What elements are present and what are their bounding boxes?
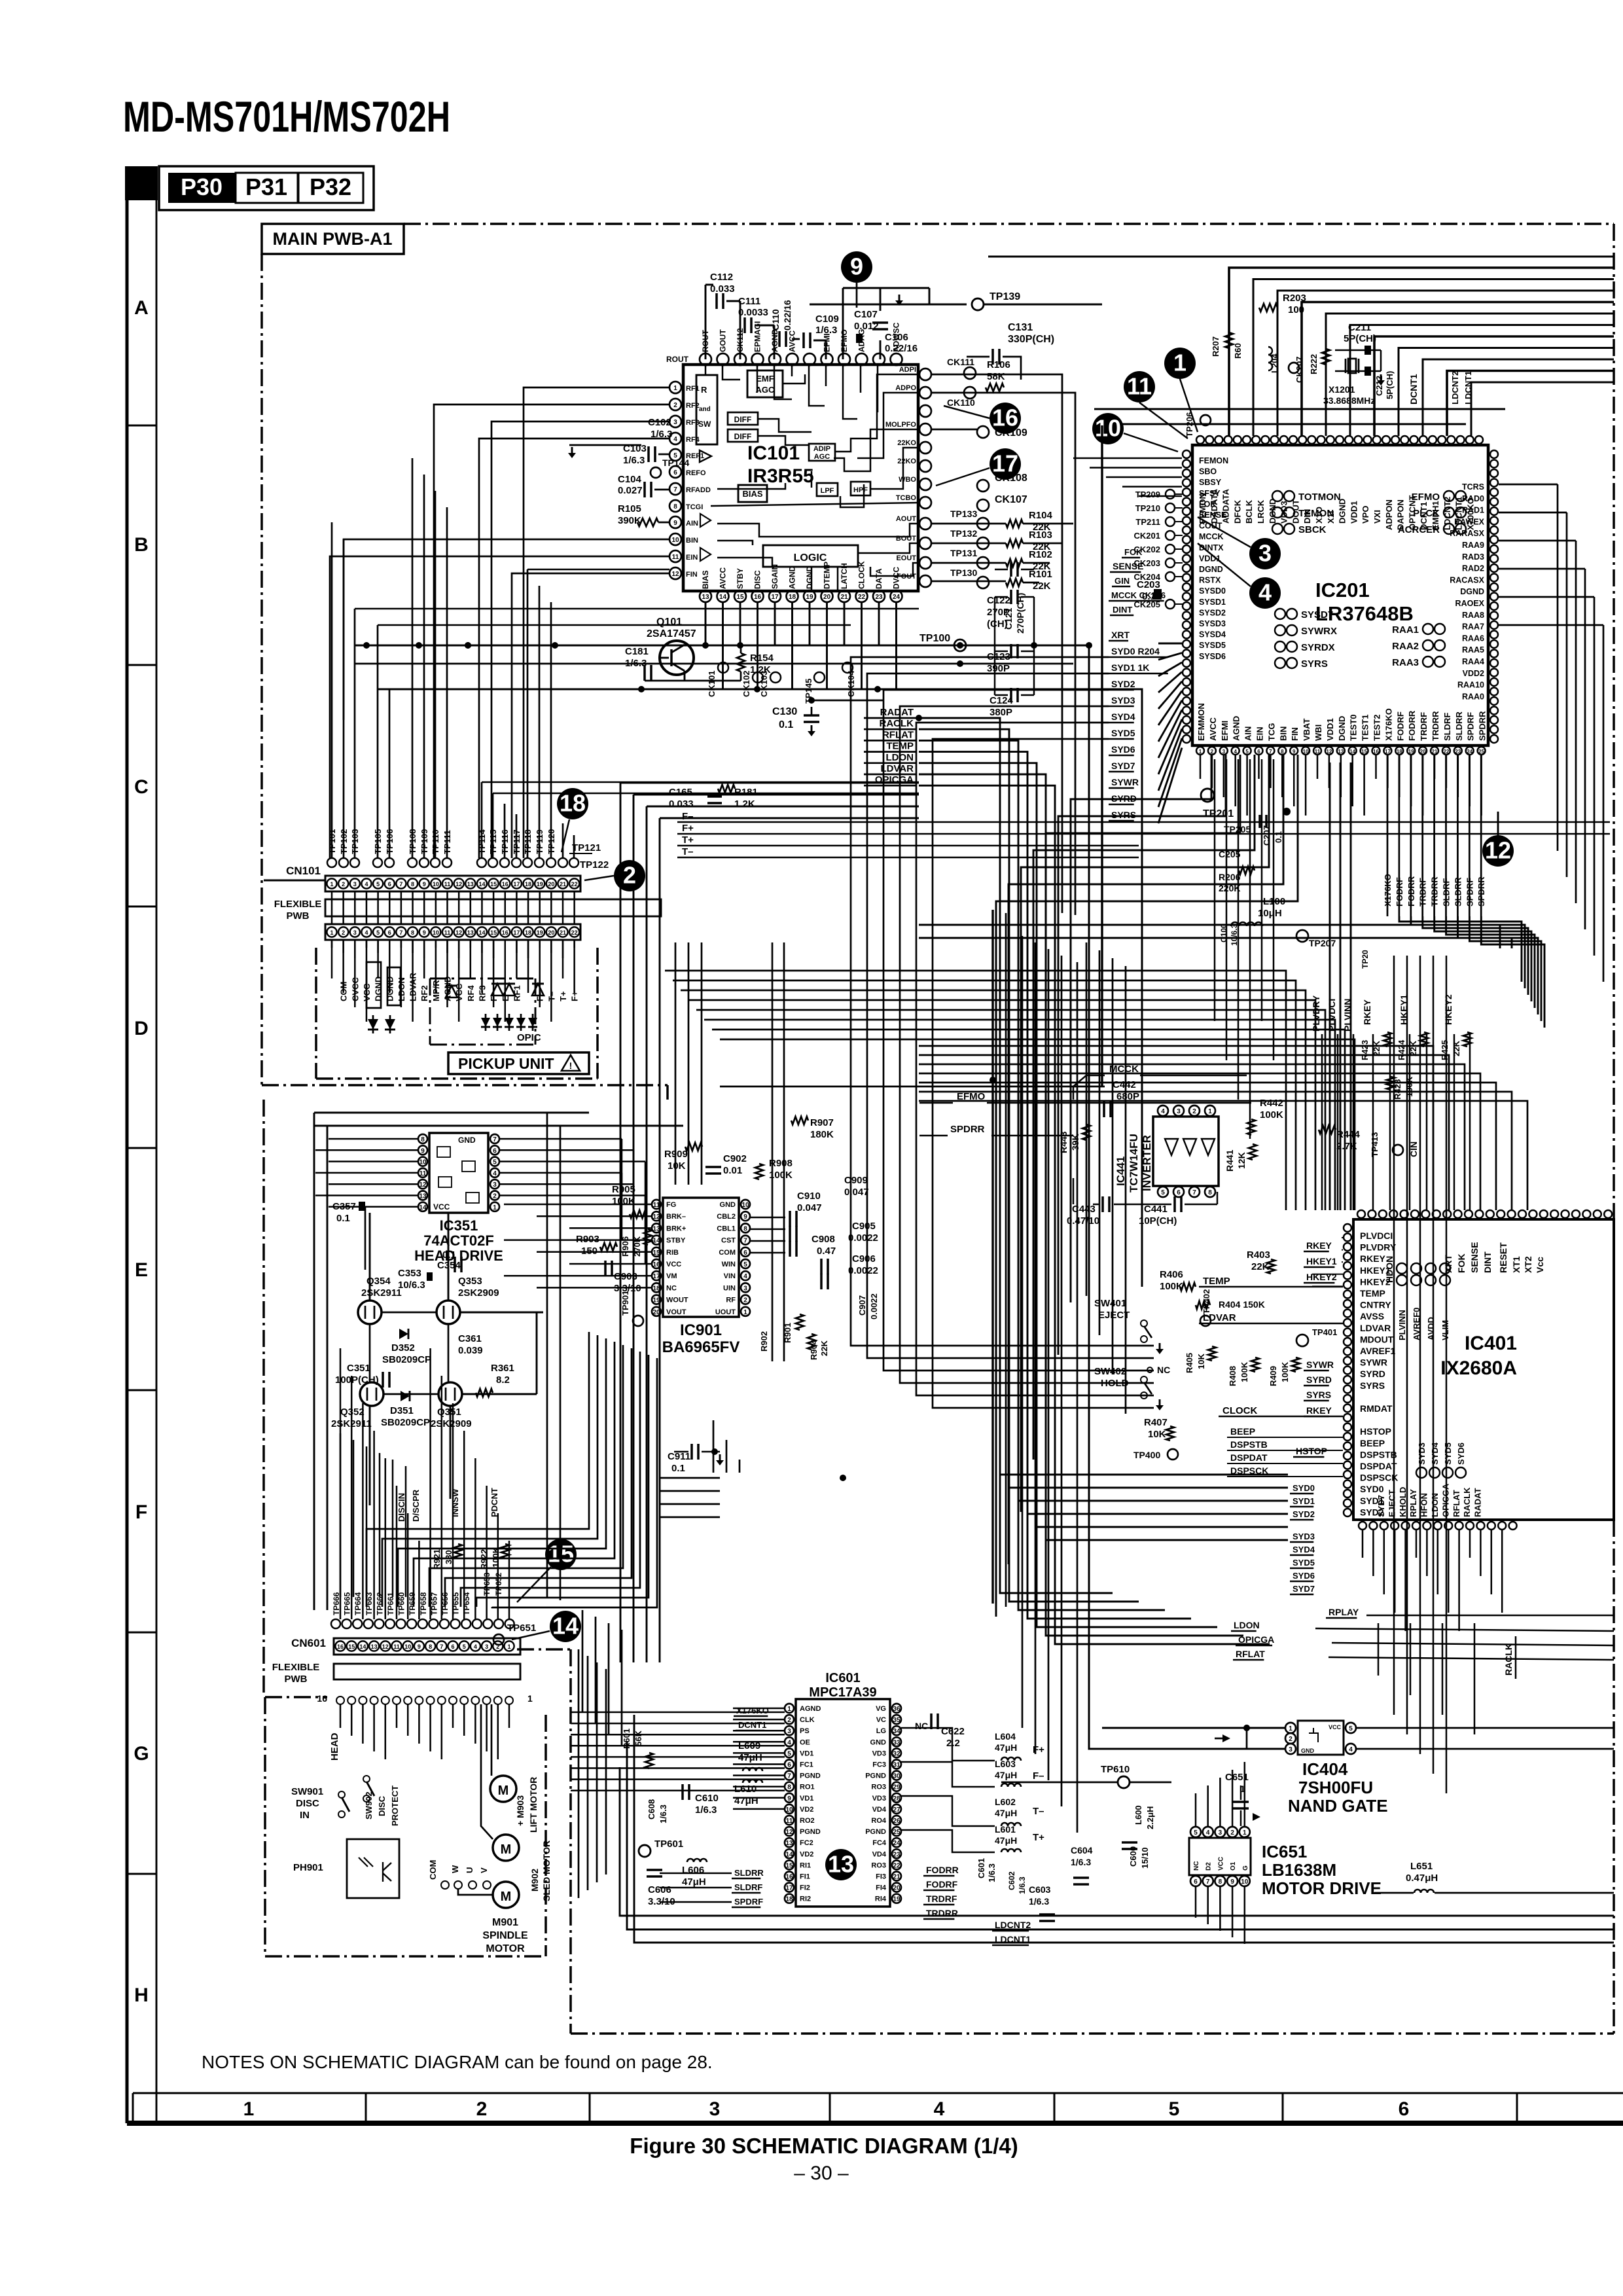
svg-text:TP663: TP663 xyxy=(365,1592,374,1615)
svg-text:9: 9 xyxy=(418,1643,421,1650)
svg-text:PLVDRY: PLVDRY xyxy=(1360,1242,1397,1253)
svg-text:HEAD: HEAD xyxy=(329,1732,340,1761)
svg-text:PWB: PWB xyxy=(285,1674,308,1685)
svg-text:CN601: CN601 xyxy=(291,1637,326,1649)
svg-text:RF: RF xyxy=(726,1297,736,1304)
svg-text:6: 6 xyxy=(388,929,391,936)
svg-text:TCRS: TCRS xyxy=(1462,482,1484,492)
svg-text:FODRR: FODRR xyxy=(1407,710,1417,741)
svg-text:47μH: 47μH xyxy=(682,1876,706,1888)
svg-text:29: 29 xyxy=(893,1784,901,1791)
IC101 interior wiring texture xyxy=(705,365,707,374)
svg-text:19: 19 xyxy=(1408,749,1414,755)
svg-text:C608: C608 xyxy=(647,1799,656,1820)
svg-text:12: 12 xyxy=(455,881,462,888)
svg-text:15: 15 xyxy=(348,1643,355,1650)
clock points CK111 CK110 right of IC101 xyxy=(964,367,976,379)
svg-text:SENSE: SENSE xyxy=(1469,1242,1480,1273)
svg-text:9: 9 xyxy=(421,1147,425,1155)
test point TP651 xyxy=(493,1634,504,1645)
svg-text:RF4: RF4 xyxy=(466,985,476,1001)
svg-text:1/6.3: 1/6.3 xyxy=(987,1863,997,1882)
svg-text:9: 9 xyxy=(1230,1878,1234,1886)
IC401 inner circled SYD3-SYD6 xyxy=(1416,1467,1427,1478)
svg-text:22K: 22K xyxy=(819,1340,829,1356)
svg-text:2: 2 xyxy=(342,881,345,888)
wire horizontal sweep D row into IC401 top xyxy=(665,971,1286,1210)
svg-text:C112: C112 xyxy=(710,272,733,283)
svg-text:7: 7 xyxy=(399,929,402,936)
svg-text:8: 8 xyxy=(1219,1878,1222,1886)
svg-text:4: 4 xyxy=(365,881,368,888)
svg-text:L604: L604 xyxy=(995,1731,1016,1742)
svg-text:8: 8 xyxy=(411,881,414,888)
svg-text:3: 3 xyxy=(709,2098,721,2120)
svg-text:18: 18 xyxy=(560,790,586,817)
svg-text:32: 32 xyxy=(893,1750,901,1757)
svg-text:RI2: RI2 xyxy=(800,1895,811,1903)
svg-text:MCCK: MCCK xyxy=(1199,532,1224,541)
svg-text:AVCC: AVCC xyxy=(788,331,797,352)
svg-text:R222: R222 xyxy=(1309,354,1319,374)
svg-text:SW402: SW402 xyxy=(1094,1366,1126,1377)
svg-text:FC2: FC2 xyxy=(800,1839,813,1847)
svg-text:12: 12 xyxy=(455,929,462,936)
IC101 bottom pins 13-24 xyxy=(700,590,711,602)
svg-text:SYRS: SYRS xyxy=(1111,810,1136,820)
svg-text:FC4: FC4 xyxy=(872,1839,887,1847)
svg-text:TP601: TP601 xyxy=(654,1839,683,1850)
svg-text:RESET: RESET xyxy=(1498,1242,1508,1273)
svg-text:R409: R409 xyxy=(1268,1366,1278,1386)
svg-text:CK107: CK107 xyxy=(995,494,1027,505)
svg-text:C911: C911 xyxy=(668,1451,690,1462)
svg-text:LDON: LDON xyxy=(1234,1620,1260,1630)
svg-text:SYSD1: SYSD1 xyxy=(1199,598,1226,607)
wire nested bends center-left xyxy=(366,1332,589,1607)
svg-text:TP660: TP660 xyxy=(397,1592,406,1615)
svg-text:0.0033: 0.0033 xyxy=(738,307,768,318)
svg-text:X176KO: X176KO xyxy=(1383,708,1393,741)
svg-text:PICKUP UNIT: PICKUP UNIT xyxy=(458,1055,554,1072)
svg-text:6: 6 xyxy=(673,469,677,476)
svg-text:RF2: RF2 xyxy=(686,402,700,410)
svg-text:R404 150K: R404 150K xyxy=(1219,1299,1265,1310)
svg-text:20: 20 xyxy=(652,1309,660,1316)
svg-text:AGC: AGC xyxy=(756,385,776,395)
svg-text:5: 5 xyxy=(376,881,380,888)
svg-text:R407: R407 xyxy=(1144,1417,1168,1428)
svg-text:RADAT: RADAT xyxy=(1473,1488,1483,1517)
svg-text:VCC: VCC xyxy=(1217,1857,1224,1871)
svg-text:ADPO: ADPO xyxy=(895,384,916,392)
left border column xyxy=(126,166,129,2123)
svg-text:TEMON: TEMON xyxy=(1298,508,1334,519)
svg-text:RACLK: RACLK xyxy=(880,718,914,729)
svg-text:and: and xyxy=(699,406,711,413)
svg-text:SYSD0: SYSD0 xyxy=(1199,586,1226,596)
IC651 pins bottom xyxy=(1190,1876,1201,1886)
motors dashed box xyxy=(264,1697,266,1956)
svg-text:VD3: VD3 xyxy=(872,1795,886,1803)
svg-text:OPIC: OPIC xyxy=(517,1032,541,1043)
svg-text:8: 8 xyxy=(429,1643,432,1650)
svg-text:VBAT: VBAT xyxy=(1302,719,1311,741)
svg-text:5: 5 xyxy=(493,1159,497,1166)
svg-text:B: B xyxy=(134,534,149,556)
svg-text:LDVAR: LDVAR xyxy=(1360,1323,1391,1333)
svg-text:LDON: LDON xyxy=(1430,1493,1440,1517)
svg-text:VIN: VIN xyxy=(724,1272,736,1280)
OPIC dashed box xyxy=(430,978,535,980)
wires from SYD/RPLAY labels to right edge xyxy=(1366,1615,1614,1617)
svg-text:AVDD: AVDD xyxy=(1426,1317,1436,1340)
bottom column ruler xyxy=(133,2092,1623,2094)
svg-text:0.22/16: 0.22/16 xyxy=(885,343,918,354)
svg-text:BCLK: BCLK xyxy=(1244,499,1254,524)
svg-text:ADIP: ADIP xyxy=(813,445,830,453)
svg-text:ADPON: ADPON xyxy=(1384,499,1394,530)
svg-text:XT1: XT1 xyxy=(1511,1256,1522,1273)
svg-text:C351: C351 xyxy=(347,1363,370,1374)
svg-text:16: 16 xyxy=(652,1261,660,1268)
svg-text:47μH: 47μH xyxy=(995,1770,1017,1780)
IC101 BIAS block xyxy=(738,485,767,502)
svg-text:DISC: DISC xyxy=(377,1795,387,1816)
svg-text:IR3R55: IR3R55 xyxy=(747,465,814,487)
svg-text:SW901: SW901 xyxy=(291,1786,323,1797)
svg-text:RAA4: RAA4 xyxy=(1462,657,1484,666)
op-chip IC101 IR3R55 box xyxy=(683,365,918,591)
svg-text:FODRR: FODRR xyxy=(926,1865,959,1875)
svg-text:TOTMON: TOTMON xyxy=(1298,492,1341,503)
svg-text:FC1: FC1 xyxy=(800,1761,813,1769)
svg-text:0.0022: 0.0022 xyxy=(869,1293,879,1319)
top-right wire bundle into IC201 xyxy=(1229,268,1614,436)
svg-text:4: 4 xyxy=(1349,1746,1353,1753)
svg-text:CBL2: CBL2 xyxy=(717,1213,736,1221)
svg-text:VPO: VPO xyxy=(1361,506,1370,524)
motor M903 LIFT MOTOR xyxy=(490,1776,516,1802)
IC101 inner R/SW block xyxy=(696,375,717,444)
svg-text:DINT: DINT xyxy=(1482,1251,1493,1273)
svg-text:R902: R902 xyxy=(759,1331,769,1352)
svg-text:11: 11 xyxy=(1315,749,1321,755)
svg-text:RMDAT: RMDAT xyxy=(1360,1403,1393,1414)
svg-text:DSPDAT: DSPDAT xyxy=(1360,1461,1397,1471)
svg-text:0.22/16: 0.22/16 xyxy=(782,300,793,331)
wire verticals between CN101 strips through flexible band xyxy=(331,891,333,924)
svg-text:SBSY: SBSY xyxy=(1199,478,1222,487)
svg-text:SYD5: SYD5 xyxy=(1293,1558,1315,1568)
wires SYD bus into IC201 left pins xyxy=(1158,643,1182,645)
svg-text:PLCK: PLCK xyxy=(1413,508,1440,519)
svg-text:0.027: 0.027 xyxy=(618,485,643,496)
svg-text:TP661: TP661 xyxy=(386,1592,395,1615)
svg-text:SYD3: SYD3 xyxy=(1111,695,1135,706)
svg-text:MOTOR DRIVE: MOTOR DRIVE xyxy=(1262,1878,1382,1898)
svg-text:24: 24 xyxy=(1467,749,1472,755)
svg-text:15: 15 xyxy=(652,1249,660,1257)
svg-text:U: U xyxy=(465,1867,474,1873)
svg-text:24: 24 xyxy=(893,594,901,601)
svg-text:4: 4 xyxy=(1161,1108,1165,1115)
svg-text:IX2680A: IX2680A xyxy=(1440,1357,1517,1379)
svg-text:T–: T– xyxy=(682,846,694,857)
svg-text:390P: 390P xyxy=(987,663,1010,674)
svg-text:0.47: 0.47 xyxy=(817,1246,836,1257)
svg-text:16: 16 xyxy=(785,1874,793,1881)
svg-text:20: 20 xyxy=(548,881,554,888)
svg-text:DCNT1: DCNT1 xyxy=(1408,374,1419,404)
svg-text:R103: R103 xyxy=(1029,529,1052,541)
svg-text:PGND: PGND xyxy=(800,1828,821,1836)
svg-text:SYD6: SYD6 xyxy=(1293,1571,1315,1581)
svg-text:RF3: RF3 xyxy=(686,419,700,427)
connector CN101 strip xyxy=(325,876,580,891)
svg-text:4: 4 xyxy=(1234,749,1237,755)
svg-text:14: 14 xyxy=(478,929,485,936)
svg-text:4: 4 xyxy=(474,1643,477,1650)
svg-text:RKEY: RKEY xyxy=(1306,1240,1332,1251)
svg-text:RAA7: RAA7 xyxy=(1462,622,1484,632)
svg-text:10/6.3: 10/6.3 xyxy=(398,1280,425,1291)
svg-text:PWB: PWB xyxy=(287,910,310,922)
flexible PWB band xyxy=(325,899,661,916)
svg-text:R206: R206 xyxy=(1219,872,1241,882)
svg-text:16: 16 xyxy=(337,1643,344,1650)
svg-text:RI4: RI4 xyxy=(875,1895,887,1903)
svg-text:FOK: FOK xyxy=(1124,547,1143,557)
svg-text:SYWR: SYWR xyxy=(1306,1359,1334,1370)
svg-text:330P(CH): 330P(CH) xyxy=(1008,334,1054,345)
svg-text:MAIN PWB-A1: MAIN PWB-A1 xyxy=(273,229,393,249)
svg-text:F–: F– xyxy=(682,811,694,822)
svg-text:LRCK: LRCK xyxy=(1256,499,1266,524)
svg-text:C131: C131 xyxy=(1008,322,1033,333)
svg-text:TCBO: TCBO xyxy=(896,494,917,502)
svg-text:17: 17 xyxy=(992,450,1018,477)
svg-text:180K: 180K xyxy=(810,1129,834,1140)
svg-text:0.1: 0.1 xyxy=(1142,591,1156,602)
svg-text:2.2μH: 2.2μH xyxy=(1145,1806,1155,1829)
svg-text:VCC: VCC xyxy=(666,1261,681,1268)
svg-text:VC: VC xyxy=(876,1716,886,1724)
svg-text:AGND: AGND xyxy=(1232,716,1241,741)
MAIN PWB-A1 label box xyxy=(262,224,404,254)
svg-text:21: 21 xyxy=(893,1874,901,1881)
svg-text:X1201: X1201 xyxy=(1329,384,1355,395)
system control IC401 IX2680 box xyxy=(1353,1219,1614,1520)
svg-text:Q101: Q101 xyxy=(656,617,682,628)
svg-text:14: 14 xyxy=(552,1613,579,1640)
wire trunk bundle F2 from IC201 bottom pins left and down xyxy=(1071,755,1211,1302)
svg-text:R423: R423 xyxy=(1360,1040,1370,1060)
wires above IC401 to top pins xyxy=(919,1046,1433,1210)
svg-text:22: 22 xyxy=(893,1862,901,1869)
svg-text:SYD7: SYD7 xyxy=(1111,761,1135,771)
svg-text:47μH: 47μH xyxy=(995,1742,1017,1753)
svg-text:3: 3 xyxy=(1258,540,1272,567)
svg-text:2: 2 xyxy=(1289,1736,1293,1743)
svg-text:TRDRF: TRDRF xyxy=(1419,712,1429,741)
svg-text:RO2: RO2 xyxy=(800,1817,815,1825)
svg-text:GIN: GIN xyxy=(1115,576,1130,586)
svg-text:20: 20 xyxy=(893,1885,901,1892)
wires left column to IC401 xyxy=(1342,1237,1343,1238)
long horizontals upper D row xyxy=(919,925,1500,948)
svg-text:47μH: 47μH xyxy=(995,1808,1017,1818)
svg-text:WBI: WBI xyxy=(1313,725,1323,741)
svg-text:12: 12 xyxy=(382,1643,389,1650)
svg-text:10: 10 xyxy=(741,1202,749,1209)
svg-text:R154: R154 xyxy=(750,653,774,664)
svg-text:2: 2 xyxy=(1230,1829,1234,1837)
svg-text:DISC: DISC xyxy=(753,570,762,589)
svg-text:0.47μH: 0.47μH xyxy=(1406,1873,1438,1884)
svg-text:FI2: FI2 xyxy=(800,1884,810,1892)
svg-text:IC651: IC651 xyxy=(1262,1842,1307,1861)
IC101 top pins xyxy=(700,353,711,365)
svg-text:13: 13 xyxy=(1338,749,1344,755)
svg-text:19: 19 xyxy=(537,881,543,888)
svg-text:REFO: REFO xyxy=(686,469,706,477)
svg-text:12: 12 xyxy=(652,1213,660,1221)
wire verticals from FET area down xyxy=(340,1433,342,1597)
svg-text:(CH): (CH) xyxy=(987,619,1008,630)
svg-text:TP401: TP401 xyxy=(1312,1327,1337,1337)
svg-text:23: 23 xyxy=(893,1851,901,1858)
svg-text:SGAIN: SGAIN xyxy=(770,564,779,589)
svg-text:7SH00FU: 7SH00FU xyxy=(1298,1778,1373,1797)
svg-text:SYD7: SYD7 xyxy=(1376,1495,1386,1517)
svg-text:RO3: RO3 xyxy=(871,1784,886,1791)
svg-text:13: 13 xyxy=(828,1851,854,1878)
svg-text:FODRF: FODRF xyxy=(926,1879,958,1890)
svg-text:7: 7 xyxy=(787,1773,791,1780)
svg-text:100P(CH): 100P(CH) xyxy=(335,1374,379,1386)
svg-text:SYD5: SYD5 xyxy=(1111,728,1135,738)
svg-text:DATA: DATA xyxy=(874,568,883,589)
svg-text:12: 12 xyxy=(419,1181,427,1189)
svg-text:EMF: EMF xyxy=(756,374,774,384)
svg-text:SPINDLE: SPINDLE xyxy=(482,1930,528,1941)
IC101 LPF HPF blocks xyxy=(817,483,838,496)
svg-text:R442: R442 xyxy=(1260,1098,1283,1109)
svg-text:C110: C110 xyxy=(770,309,781,331)
svg-text:380P: 380P xyxy=(990,707,1012,718)
svg-text:6: 6 xyxy=(451,1643,454,1650)
svg-text:TCGI: TCGI xyxy=(686,503,703,511)
svg-text:19: 19 xyxy=(893,1896,901,1903)
svg-text:0.47/10: 0.47/10 xyxy=(1067,1215,1099,1227)
svg-text:11: 11 xyxy=(393,1643,400,1650)
svg-text:9: 9 xyxy=(423,929,426,936)
transistor Q352 2SK2911 xyxy=(360,1382,383,1406)
svg-text:74ACT02F: 74ACT02F xyxy=(423,1232,494,1249)
svg-text:RKEY: RKEY xyxy=(1306,1405,1332,1416)
bottom dashed border xyxy=(571,2032,1614,2035)
svg-text:12K: 12K xyxy=(1236,1152,1247,1169)
svg-text:ADDATA: ADDATA xyxy=(1221,488,1231,524)
svg-text:22: 22 xyxy=(571,881,578,888)
svg-text:VD4: VD4 xyxy=(872,1850,887,1858)
svg-text:150: 150 xyxy=(581,1246,597,1257)
svg-text:RAA3: RAA3 xyxy=(1392,657,1419,668)
IC201 inner circled labels TOTMON TEMON SBCK xyxy=(1272,491,1283,501)
svg-text:4: 4 xyxy=(934,2098,945,2120)
resistors R104 R103 R102 R101 22K xyxy=(1006,520,1023,528)
svg-text:RF2: RF2 xyxy=(419,985,429,1001)
svg-text:O1: O1 xyxy=(1230,1861,1237,1871)
svg-text:SW: SW xyxy=(698,420,711,429)
CN601 test point row TP666-TP654 xyxy=(331,1619,340,1628)
svg-text:1: 1 xyxy=(507,1643,510,1650)
svg-text:OPICGA: OPICGA xyxy=(1238,1634,1274,1645)
svg-text:+ M903: + M903 xyxy=(515,1795,526,1826)
svg-text:1: 1 xyxy=(1173,350,1186,376)
connector CN601 strip xyxy=(334,1638,520,1655)
svg-text:PGND: PGND xyxy=(865,1828,886,1836)
svg-text:TP131: TP131 xyxy=(950,548,977,558)
svg-text:EFMMON: EFMMON xyxy=(1196,703,1206,741)
svg-text:RF4: RF4 xyxy=(686,436,700,444)
junction dots on rails xyxy=(416,642,422,649)
svg-text:3: 3 xyxy=(743,1285,747,1292)
svg-text:CN101: CN101 xyxy=(286,865,321,877)
svg-text:D352: D352 xyxy=(391,1342,415,1354)
numbered circle 12 xyxy=(1482,835,1514,867)
svg-text:BIN: BIN xyxy=(686,537,698,545)
svg-text:SENSE: SENSE xyxy=(1113,561,1143,571)
logic chip IC351 74ACT02F box xyxy=(429,1133,488,1213)
svg-text:D2: D2 xyxy=(1205,1862,1213,1871)
svg-text:IC201: IC201 xyxy=(1315,579,1370,601)
svg-text:TP901: TP901 xyxy=(620,1291,630,1316)
svg-text:5: 5 xyxy=(1349,1725,1353,1732)
svg-text:M901: M901 xyxy=(492,1917,518,1928)
svg-text:D: D xyxy=(134,1018,149,1039)
svg-text:14: 14 xyxy=(478,881,485,888)
svg-text:17: 17 xyxy=(1385,749,1391,755)
svg-text:5P(CH): 5P(CH) xyxy=(1344,333,1376,344)
test point TP139 xyxy=(972,298,984,310)
numbered circle 11 xyxy=(1124,371,1155,403)
svg-text:30: 30 xyxy=(893,1773,901,1780)
svg-text:SYWR: SYWR xyxy=(1111,777,1139,787)
svg-text:33: 33 xyxy=(893,1739,901,1746)
svg-text:R104: R104 xyxy=(1029,510,1053,521)
IC201 left pin ovals xyxy=(1183,450,1190,458)
svg-text:16: 16 xyxy=(502,881,508,888)
svg-text:INVERTER: INVERTER xyxy=(1141,1135,1153,1191)
svg-text:5: 5 xyxy=(1194,1829,1198,1837)
svg-text:6: 6 xyxy=(1194,1878,1198,1886)
svg-text:RAWEX: RAWEX xyxy=(1454,517,1485,526)
svg-text:2: 2 xyxy=(1211,749,1214,755)
svg-text:TP211: TP211 xyxy=(1135,517,1160,527)
wires IC201 left pins to left xyxy=(1073,457,1182,459)
svg-text:TP122: TP122 xyxy=(580,859,609,870)
svg-text:2: 2 xyxy=(1192,1108,1196,1115)
svg-text:EOUT: EOUT xyxy=(896,554,916,562)
svg-text:10: 10 xyxy=(433,881,439,888)
numbered circle 14 xyxy=(550,1611,581,1642)
svg-text:FLEXIBLE: FLEXIBLE xyxy=(272,1662,320,1673)
svg-text:COM: COM xyxy=(719,1249,736,1257)
svg-text:C181: C181 xyxy=(625,646,649,657)
svg-text:2SK2911: 2SK2911 xyxy=(361,1287,402,1299)
